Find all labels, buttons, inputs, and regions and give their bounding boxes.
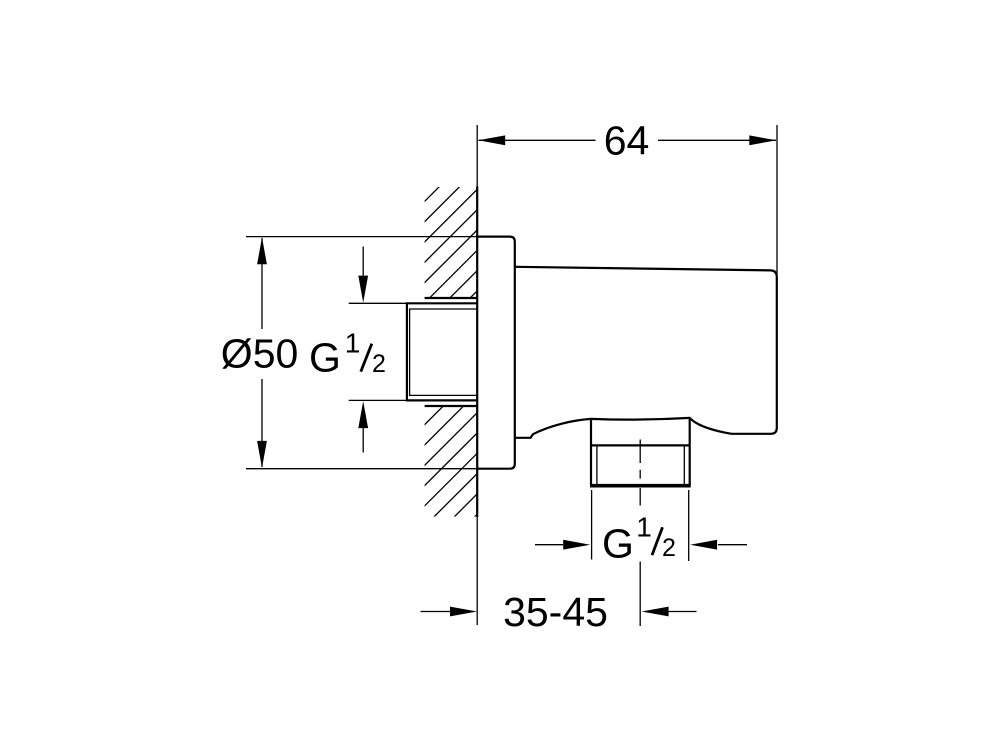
- wall hatching upper: [76, 150, 659, 550]
- svg-text:2: 2: [372, 350, 386, 378]
- dim D50 bottom arrowhead: [257, 441, 267, 468]
- wall face line: [476, 187, 478, 518]
- dim D50 top extension line: [246, 236, 477, 238]
- rear inlet thread root lines: [410, 309, 478, 395]
- dim G1/2 outlet: right extension line: [688, 490, 690, 561]
- svg-text:35-45: 35-45: [503, 589, 608, 635]
- dim D50 line upper part: [261, 238, 263, 329]
- dim D50 top arrowhead: [257, 237, 267, 264]
- dim G1/2 rear: upper arrow: [362, 247, 364, 296]
- svg-text:64: 64: [604, 117, 650, 163]
- body outline: [515, 267, 777, 438]
- dim 64 left arrowhead: [478, 135, 505, 145]
- outlet thread root right: [683, 445, 685, 484]
- dim G1/2 outlet: left arrow: [535, 544, 563, 546]
- svg-text:G: G: [602, 521, 634, 567]
- svg-text:2: 2: [662, 534, 676, 562]
- outlet centerline: [639, 440, 641, 627]
- dim D50 line lower part: [261, 379, 263, 467]
- svg-text:1: 1: [345, 328, 361, 359]
- dim text G1/2 outlet: [602, 512, 676, 567]
- wall hole bottom edge: [425, 405, 478, 407]
- dim 64 left extension line (above wall): [476, 125, 478, 187]
- wall face extension line below (for dim 35-45): [476, 517, 478, 625]
- svg-text:Ø50: Ø50: [221, 331, 298, 377]
- svg-text:1: 1: [636, 512, 652, 543]
- outlet bottom face: [590, 484, 691, 488]
- dim D50 bottom extension line: [246, 468, 477, 470]
- wall hatching lower: [79, 350, 641, 750]
- dim 64 line left part: [479, 139, 596, 141]
- rear threaded inlet outer profile: [407, 303, 478, 400]
- dim G1/2 rear: bottom extension line: [349, 399, 407, 401]
- dim G1/2 rear: lower arrow: [362, 408, 364, 453]
- flange (escutcheon) outline: [477, 237, 515, 469]
- dim 64 right extension line: [776, 125, 778, 274]
- dim 64 right arrowhead: [749, 135, 776, 145]
- dim G1/2 outlet: left extension line: [591, 490, 593, 560]
- outlet thread top line: [591, 444, 690, 446]
- dim G1/2 rear: top extension line: [349, 302, 407, 304]
- dim 35-45: left arrow: [421, 611, 451, 613]
- svg-text:G: G: [309, 334, 341, 380]
- outlet thread root left: [596, 445, 598, 484]
- dim text G1/2 rear: [309, 328, 386, 381]
- dim 35-45: right arrow: [669, 611, 697, 613]
- outlet neck right edge: [689, 418, 691, 485]
- dim 64 line right part: [658, 139, 776, 141]
- outlet neck left edge: [590, 419, 592, 485]
- wall hole top edge: [425, 297, 478, 299]
- dim G1/2 outlet: right arrow: [718, 544, 747, 546]
